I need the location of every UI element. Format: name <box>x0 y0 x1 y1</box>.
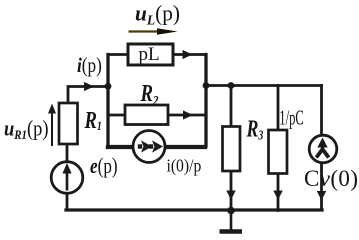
wire R3 bottom to rail <box>230 171 233 210</box>
wire 1/pC bottom to rail <box>277 174 280 211</box>
arrows inside Cv(0) <box>316 138 328 158</box>
arrowhead down on Cv(0) branch <box>317 191 326 201</box>
wire right vertical B column <box>204 55 207 147</box>
inductor impedance box pL <box>128 44 173 65</box>
arrowhead i(p) on wire <box>84 82 94 91</box>
arrowhead after pL <box>183 50 193 59</box>
voltage arrow u_R1(p) <box>48 104 56 147</box>
wire thick branch i(0)/p right <box>166 145 205 149</box>
node B dot <box>203 82 210 89</box>
wire bottom rail <box>66 208 322 211</box>
ground <box>220 211 243 232</box>
node dot bottom rail at R3/ground <box>227 207 235 215</box>
wire thick branch i(0)/p left <box>108 145 132 149</box>
chevrons inside i(0)/p <box>138 140 163 152</box>
wire e(p) bottom to bottom rail <box>66 193 69 210</box>
voltage source e(p) circle <box>51 162 83 194</box>
resistor R3 <box>223 127 241 172</box>
wire 1/pC branch drop <box>277 86 280 131</box>
wire Cv(0) bottom to rail <box>320 165 323 211</box>
svg-text:Cv(0): Cv(0) <box>304 166 358 191</box>
svg-text:e(p): e(p) <box>90 154 118 179</box>
wire pL box right to corner <box>173 53 206 56</box>
wire R2 right to B column <box>168 114 206 117</box>
wire top rail node B to right corner <box>206 84 322 87</box>
wire node A to R2 left <box>108 114 125 117</box>
voltage arrow u_L(p) <box>129 28 178 35</box>
arrowhead down on R3 branch <box>226 191 235 201</box>
wire e(p) top to R1 bottom <box>66 144 69 162</box>
svg-text:i(p): i(p) <box>77 55 102 78</box>
svg-text:uR1(p): uR1(p) <box>4 117 49 142</box>
wire left vertical A column <box>106 55 109 147</box>
wire R3 branch drop <box>230 86 233 127</box>
node A dot <box>105 83 112 90</box>
node dot top rail at R3 <box>228 82 235 89</box>
current source i(0)/p circle <box>133 131 165 163</box>
resistor R2 <box>125 105 168 125</box>
svg-text:1/pC: 1/pC <box>279 106 303 129</box>
svg-text:pL: pL <box>139 44 160 65</box>
arrowhead after R2 <box>183 110 193 119</box>
wire Cv(0) branch drop <box>320 86 323 135</box>
wire to pL box left <box>108 53 128 56</box>
source Cv(0) circle <box>309 135 337 163</box>
resistor R1 <box>59 103 78 144</box>
svg-text:uL(p): uL(p) <box>135 1 180 27</box>
wire R1 top up and right to node A (i(p) wire) <box>68 87 107 104</box>
capacitor impedance box 1/pC <box>269 130 288 174</box>
arrow inside e(p) <box>62 163 71 191</box>
svg-text:i(0)/p: i(0)/p <box>167 155 202 175</box>
arrowhead down on 1/pC branch <box>273 191 282 201</box>
